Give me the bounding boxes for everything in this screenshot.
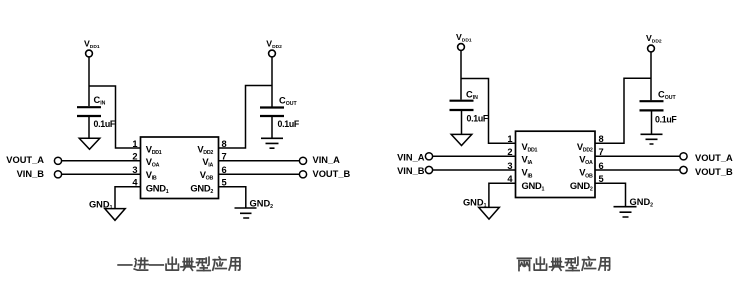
wire branch VDD2 to pin8	[219, 86, 273, 149]
wire pin6 to terminal VOUT_B (c2)	[595, 169, 680, 171]
svg-text:VOB: VOB	[200, 169, 214, 182]
svg-text:VIA: VIA	[202, 156, 213, 169]
wire pin2 to terminal VIN_A (c2)	[433, 155, 516, 157]
svg-text:5: 5	[222, 178, 227, 188]
char 两	[517, 258, 531, 270]
wire COUT to ground (c2)	[651, 111, 653, 134]
ground GND1 (triangle)	[105, 209, 125, 221]
IC U2 body	[516, 131, 596, 197]
char 用	[599, 258, 610, 270]
svg-text:2: 2	[507, 147, 512, 157]
capacitor C4 COUT (c2)	[640, 101, 664, 110]
wire pin3 to terminal VIN_B	[62, 173, 141, 175]
char 应	[582, 257, 595, 270]
svg-text:3: 3	[507, 161, 512, 171]
wire CIN to ground (c2)	[461, 111, 463, 134]
capacitor C1 CIN	[77, 107, 101, 116]
terminal VOUT_A circle (c2)	[680, 153, 687, 160]
ground GND2 (3-bar) (c2)	[614, 207, 637, 217]
wire branch VDD1 to pin1 (c2)	[461, 79, 516, 144]
terminal VIN_B circle	[54, 171, 61, 178]
wire VDD2 down to COUT (c2)	[650, 52, 652, 100]
wire pin3 to terminal VIN_B (c2)	[433, 169, 516, 171]
svg-text:VDD1: VDD1	[146, 143, 162, 156]
svg-text:4: 4	[132, 178, 138, 188]
wire pin4 to GND1 (c2)	[489, 183, 516, 207]
wire pin2 to terminal VOUT_A	[62, 160, 141, 162]
char 一	[118, 259, 132, 270]
char 型	[196, 257, 210, 270]
power terminal VDD2	[269, 50, 276, 57]
svg-text:VIB: VIB	[146, 169, 157, 182]
svg-text:VOUT_A: VOUT_A	[6, 155, 44, 165]
ground (3-bar) under COUT (c2)	[641, 134, 663, 144]
svg-text:GND2: GND2	[630, 197, 654, 209]
svg-text:VOUT_B: VOUT_B	[313, 169, 351, 179]
svg-text:VOUT_A: VOUT_A	[695, 153, 733, 163]
svg-text:0.1uF: 0.1uF	[467, 114, 489, 124]
power terminal VDD1 (c2)	[458, 44, 465, 51]
caption 1: 一进一出典型应用	[118, 257, 240, 270]
char 出	[534, 257, 546, 270]
svg-text:COUT: COUT	[658, 89, 677, 101]
svg-text:GND2: GND2	[570, 180, 593, 193]
svg-text:COUT: COUT	[279, 96, 298, 108]
char 一	[150, 259, 164, 270]
svg-text:VIN_B: VIN_B	[397, 166, 425, 176]
wire pin7 to terminal VIN_A	[219, 160, 300, 162]
svg-text:VOA: VOA	[579, 153, 593, 166]
CIRCUIT 2	[425, 44, 687, 220]
svg-text:1: 1	[132, 139, 137, 149]
IC U1 body	[141, 137, 219, 199]
char 出	[166, 257, 178, 270]
ground (3-bar) under COUT	[261, 138, 283, 148]
svg-text:VDD2: VDD2	[197, 143, 213, 156]
svg-text:VIN_B: VIN_B	[17, 169, 45, 179]
wire pin7 to terminal VOUT_A (c2)	[595, 155, 680, 157]
svg-text:2: 2	[132, 152, 137, 162]
terminal VIN_B circle (c2)	[425, 166, 432, 173]
terminal VOUT_A circle	[54, 157, 61, 164]
wire VDD1 down to CIN	[88, 57, 90, 106]
ground (triangle) under CIN (c2)	[451, 134, 472, 145]
wire pin5 to GND2	[219, 187, 246, 208]
caption 2: 两出典型应用	[517, 257, 609, 270]
wire VDD2 down to COUT	[271, 57, 273, 107]
wire VDD1 down to CIN (c2)	[460, 51, 462, 100]
char 典	[550, 258, 564, 270]
ground GND1 (triangle) (c2)	[479, 207, 500, 219]
svg-text:6: 6	[222, 165, 227, 175]
char 典	[181, 258, 195, 270]
svg-text:GND1: GND1	[89, 200, 113, 212]
svg-text:7: 7	[599, 147, 604, 157]
svg-text:GND1: GND1	[146, 182, 169, 195]
svg-text:CIN: CIN	[94, 95, 106, 107]
wire COUT to ground	[271, 117, 273, 138]
svg-text:VIN_A: VIN_A	[397, 152, 425, 162]
svg-text:VIB: VIB	[522, 167, 533, 180]
power terminal VDD2 (c2)	[648, 45, 655, 52]
svg-text:VIA: VIA	[522, 153, 533, 166]
char 用	[229, 258, 240, 270]
svg-text:GND1: GND1	[522, 180, 545, 193]
terminal VOUT_B circle	[299, 171, 306, 178]
svg-text:VOA: VOA	[146, 156, 160, 169]
capacitor C2 COUT	[260, 108, 284, 117]
svg-text:VOUT_B: VOUT_B	[695, 167, 733, 177]
svg-text:4: 4	[507, 174, 513, 184]
svg-text:VOB: VOB	[579, 167, 593, 180]
svg-text:1: 1	[507, 134, 512, 144]
wire CIN to ground	[88, 117, 90, 138]
svg-text:GND2: GND2	[190, 182, 213, 195]
terminal VOUT_B circle (c2)	[680, 166, 687, 173]
power terminal VDD1	[86, 50, 93, 57]
terminal VIN_A circle (c2)	[425, 153, 432, 160]
capacitor C3 CIN (c2)	[450, 101, 474, 110]
svg-text:VDD1: VDD1	[456, 32, 472, 44]
svg-text:CIN: CIN	[466, 90, 478, 102]
terminal VIN_A circle	[299, 157, 306, 164]
wire branch VDD1 to pin1	[89, 86, 141, 148]
svg-text:8: 8	[222, 139, 227, 149]
char 进	[134, 258, 148, 270]
svg-text:3: 3	[132, 165, 137, 175]
wire pin4 to GND1	[115, 187, 141, 209]
svg-text:0.1uF: 0.1uF	[94, 119, 116, 129]
svg-text:VDD2: VDD2	[646, 33, 662, 45]
wire branch VDD2 to pin8 (c2)	[595, 78, 651, 143]
svg-text:VDD2: VDD2	[577, 141, 593, 154]
svg-text:VIN_A: VIN_A	[313, 155, 341, 165]
svg-text:GND1: GND1	[463, 198, 487, 210]
svg-text:8: 8	[599, 134, 604, 144]
svg-text:VDD2: VDD2	[266, 39, 282, 51]
svg-text:0.1uF: 0.1uF	[655, 114, 677, 124]
ground (triangle) under CIN	[79, 138, 100, 149]
svg-text:0.1uF: 0.1uF	[278, 119, 300, 129]
char 应	[213, 257, 226, 270]
ground GND2 (3-bar)	[235, 208, 257, 218]
svg-text:VDD1: VDD1	[522, 141, 538, 154]
wire pin5 to GND2 (c2)	[595, 183, 626, 207]
svg-text:6: 6	[599, 161, 604, 171]
svg-text:7: 7	[222, 152, 227, 162]
wire pin6 to terminal VOUT_B	[219, 173, 300, 175]
svg-text:5: 5	[599, 174, 604, 184]
svg-text:GND2: GND2	[250, 199, 274, 211]
char 型	[565, 257, 579, 270]
svg-text:VDD1: VDD1	[84, 39, 100, 51]
